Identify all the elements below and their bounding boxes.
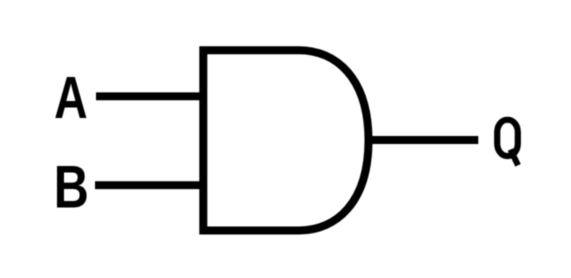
wire input A: [96, 92, 203, 100]
AND gate U1: [203, 50, 368, 230]
svg-text:B: B: [54, 152, 89, 220]
wire input B: [95, 181, 203, 189]
svg-text:A: A: [54, 65, 87, 131]
wire output: [367, 136, 478, 144]
label Q (output): [497, 120, 518, 166]
